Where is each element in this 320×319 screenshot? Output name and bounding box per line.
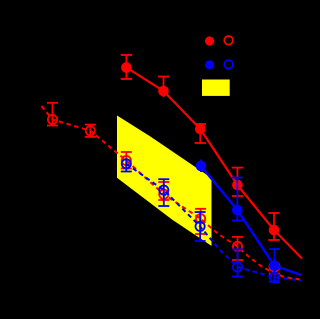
error bar red solid P1	[121, 55, 132, 79]
error bar blue solid S3	[269, 249, 280, 282]
red dashed open circle D2	[86, 126, 95, 135]
red dashed open circle D5	[196, 214, 205, 223]
blue solid point S1	[196, 161, 207, 172]
red solid point P2	[158, 86, 169, 97]
red dashed open circle D4	[159, 190, 168, 199]
red solid point P3	[195, 124, 206, 135]
blue dashed series line	[126, 164, 301, 281]
error bar red dashed D1	[47, 103, 58, 126]
error bar blue dashed B3	[195, 212, 206, 241]
legend yellow swatch	[202, 80, 230, 96]
red dashed series line	[42, 106, 302, 280]
error bar blue solid S1	[200, 160, 202, 173]
blue dashed open circle B4	[233, 262, 242, 271]
red dashed open circle D7	[270, 262, 280, 272]
red solid point P5	[269, 225, 280, 236]
error bar red dashed D5	[195, 209, 206, 234]
legend blue filled circle	[205, 60, 214, 69]
error bar blue dashed B4	[232, 249, 243, 276]
red dashed open circle D6	[233, 242, 242, 251]
yellow model band	[117, 116, 212, 246]
error bar red solid P2	[158, 77, 169, 98]
error bar blue dashed B5	[269, 270, 280, 282]
blue dashed open circle B1	[122, 159, 131, 168]
error bar blue dashed B2	[158, 179, 169, 206]
blue dashed open circle B3	[196, 222, 205, 231]
error bar red dashed D2	[85, 125, 96, 137]
blue dashed open circle B5	[270, 273, 279, 282]
legend blue open circle	[224, 60, 233, 69]
red solid point P1	[121, 62, 132, 73]
legend red open circle	[224, 36, 233, 45]
red dashed open circle D3	[122, 156, 131, 165]
blue solid point S3	[269, 261, 280, 272]
error bar red dashed D3	[121, 152, 132, 169]
legend red filled circle	[205, 36, 214, 45]
error bar red solid P5	[268, 213, 279, 240]
red dashed open circle D1	[48, 115, 57, 124]
error bar red solid P4	[232, 168, 243, 196]
error bar red dashed D4	[158, 182, 169, 200]
error bar red dashed D7	[269, 258, 280, 274]
red solid series line	[126, 68, 302, 259]
error bar blue solid S2	[232, 178, 243, 221]
error bar red solid P3	[195, 124, 206, 143]
error bar blue dashed B1	[121, 160, 132, 172]
blue solid point S2	[232, 205, 243, 216]
blue solid series line	[201, 166, 302, 275]
blue dashed open circle B2	[159, 186, 168, 195]
error bar red dashed D6	[232, 237, 243, 260]
red solid point P4	[232, 180, 243, 191]
